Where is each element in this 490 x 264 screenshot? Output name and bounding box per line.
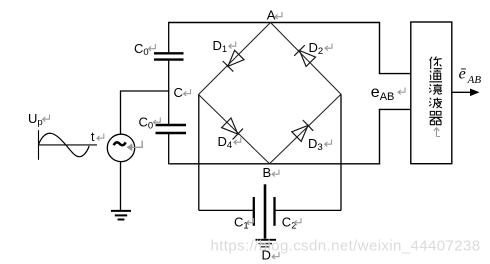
in-box return mark (vertical, up arrow) [434, 128, 440, 137]
wire: edge R-B [270, 94, 342, 164]
wire: stub down to source top [120, 90, 122, 134]
wire: edge L-B [199, 95, 270, 164]
wire: edge A-R [271, 23, 342, 95]
filter text char 低 [430, 57, 442, 70]
svg-text:C0: C0 [134, 41, 149, 58]
svg-text:Up: Up [28, 111, 43, 128]
svg-text:B: B [263, 165, 272, 180]
svg-text:t: t [91, 130, 95, 144]
AC source circle [107, 134, 134, 161]
svg-text:D4: D4 [218, 134, 233, 151]
svg-text:A: A [267, 7, 276, 22]
output arrow [452, 91, 473, 93]
wire: edge L-A [199, 23, 271, 95]
AC source tilde [114, 142, 126, 145]
capacitor C0 (upper) [154, 52, 184, 54]
wire: upper stub into filter box [379, 73, 411, 75]
wire: lower stub down to bottom rail [379, 109, 381, 164]
wire: right bend down to upper filter stub [379, 22, 381, 74]
filter text char 波 [429, 98, 442, 108]
capacitor C1 left plate [253, 197, 255, 226]
wire: lower stub into filter box [379, 108, 411, 110]
filter text char 器 [429, 111, 442, 124]
wire: left vertex down to C1 branch [198, 95, 200, 211]
diode D3 [292, 120, 313, 141]
wire: bottom rail [170, 163, 381, 165]
output arrowhead [470, 89, 480, 97]
svg-text:C: C [174, 85, 183, 100]
svg-text:ē: ē [459, 66, 467, 83]
diode D1 [223, 50, 244, 71]
capacitor C0 (lower) [156, 124, 187, 126]
wire: C2 branch horizontal [276, 209, 341, 211]
ground (source) [111, 210, 131, 212]
low-pass filter box [411, 22, 452, 164]
wire: left branch top (rail down to C0 top plate) [168, 22, 170, 53]
svg-text:C0: C0 [139, 114, 154, 131]
wire: lower C0 to bottom rail [168, 134, 170, 165]
capacitor C1/C2 common plate (B to D wire) [264, 184, 267, 238]
svg-text:eAB: eAB [371, 84, 395, 103]
Up waveform sine curve [38, 133, 89, 156]
wire: top rail from C0 branch to right bend [169, 22, 380, 24]
diode D4 [222, 118, 243, 139]
svg-text:https://blog.csdn.net/weixin_4: https://blog.csdn.net/weixin_44407238 [211, 238, 481, 255]
svg-text:D2: D2 [309, 40, 324, 57]
ground (node D) [256, 239, 277, 241]
Up waveform sketch: axes [38, 130, 40, 160]
filter text char 滤 [429, 84, 442, 95]
capacitor C2 right plate [273, 197, 275, 226]
wire: source bottom to ground [120, 162, 122, 211]
filter text char 通 [429, 70, 442, 82]
svg-text:D3: D3 [308, 136, 323, 153]
wire: source stub to node C [121, 90, 170, 92]
wire: C1 branch horizontal [199, 209, 253, 211]
wire: right vertex down to C2 branch [340, 94, 342, 210]
wire: between the two C0 capacitors (node C line) [168, 61, 170, 124]
big return mark at source [127, 141, 143, 152]
diode D2 [294, 45, 315, 66]
svg-text:D1: D1 [213, 38, 228, 55]
svg-text:AB: AB [467, 74, 482, 86]
